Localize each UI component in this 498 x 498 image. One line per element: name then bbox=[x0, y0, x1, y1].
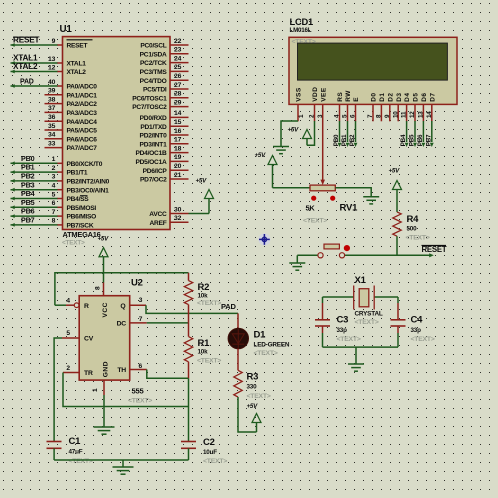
svg-text:15: 15 bbox=[174, 119, 182, 126]
svg-text:D1: D1 bbox=[379, 92, 386, 101]
svg-text:<TEXT>: <TEXT> bbox=[203, 458, 227, 465]
wire crystal bottom bbox=[323, 346, 399, 348]
origin marker bbox=[258, 233, 270, 245]
svg-text:R4: R4 bbox=[407, 214, 420, 225]
svg-text:3: 3 bbox=[52, 174, 56, 181]
svg-text:VSS: VSS bbox=[296, 87, 303, 102]
svg-text:PD6/ICP: PD6/ICP bbox=[143, 168, 168, 175]
svg-text:33p: 33p bbox=[411, 327, 422, 334]
power +5V (R4) bbox=[389, 167, 402, 212]
terminal PB0 (U1 left) bbox=[11, 154, 58, 165]
power +5V (R3) bbox=[238, 397, 261, 432]
crystal X1 bbox=[323, 275, 399, 326]
terminal RESET (U1 left) bbox=[11, 36, 58, 47]
svg-text:500: 500 bbox=[407, 226, 418, 233]
svg-text:D2: D2 bbox=[387, 92, 394, 101]
svg-text:PA7/ADC7: PA7/ADC7 bbox=[67, 145, 98, 152]
svg-text:21: 21 bbox=[174, 172, 182, 179]
wire TR bbox=[63, 373, 189, 407]
svg-text:R: R bbox=[84, 303, 89, 310]
svg-text:PC6/TOSC1: PC6/TOSC1 bbox=[132, 95, 167, 102]
LED D1 LED-GREEN bbox=[228, 313, 290, 370]
svg-text:+5V: +5V bbox=[247, 403, 259, 410]
svg-text:17: 17 bbox=[174, 137, 182, 144]
svg-text:40: 40 bbox=[48, 79, 56, 86]
svg-text:PC7/TOSC2: PC7/TOSC2 bbox=[132, 104, 167, 111]
svg-text:4: 4 bbox=[66, 298, 70, 305]
svg-text:47uF: 47uF bbox=[69, 449, 83, 456]
svg-text:PC4/TDO: PC4/TDO bbox=[140, 78, 167, 85]
svg-text:PB0: PB0 bbox=[333, 134, 340, 146]
svg-text:PB6: PB6 bbox=[417, 134, 424, 146]
svg-text:PB7/SCK: PB7/SCK bbox=[67, 223, 94, 230]
capacitor C3 33p bbox=[315, 297, 361, 347]
svg-text:VEE: VEE bbox=[320, 87, 327, 102]
svg-text:C2: C2 bbox=[203, 437, 215, 448]
svg-text:RW: RW bbox=[345, 90, 352, 102]
svg-text:2: 2 bbox=[66, 365, 70, 372]
svg-text:D1: D1 bbox=[254, 330, 267, 341]
svg-text:330: 330 bbox=[247, 384, 258, 391]
svg-text:PD5/OC1A: PD5/OC1A bbox=[136, 159, 167, 166]
svg-text:U1: U1 bbox=[60, 24, 73, 35]
svg-text:555: 555 bbox=[132, 387, 145, 396]
power +5V (555 VCC) bbox=[98, 236, 110, 283]
terminal PB4 (U1 left) bbox=[11, 189, 58, 200]
wire VEE to RV1 wiper bbox=[320, 121, 325, 185]
svg-text:LED-GREEN: LED-GREEN bbox=[254, 342, 290, 349]
svg-text:XTAL2: XTAL2 bbox=[13, 62, 38, 71]
terminal PB4 (LCD) bbox=[400, 121, 408, 147]
wire +5V rail to R2/reset bbox=[55, 273, 189, 305]
svg-text:35: 35 bbox=[48, 123, 56, 130]
svg-text:33: 33 bbox=[48, 140, 56, 147]
svg-text:D6: D6 bbox=[421, 92, 428, 101]
power +5V (LCD VDD) bbox=[288, 121, 315, 145]
svg-text:PB0: PB0 bbox=[21, 154, 35, 163]
svg-text:<TEXT>: <TEXT> bbox=[197, 300, 221, 307]
capacitor C1 47uF bbox=[47, 436, 93, 465]
svg-text:RS: RS bbox=[337, 92, 344, 102]
svg-text:19: 19 bbox=[174, 154, 182, 161]
svg-text:PC1/SDA: PC1/SDA bbox=[140, 51, 167, 58]
svg-text:10uF: 10uF bbox=[203, 449, 217, 456]
svg-text:PD2/INT0: PD2/INT0 bbox=[140, 133, 168, 140]
wire Q output / PAD bbox=[146, 305, 238, 313]
svg-text:PD7/OC2: PD7/OC2 bbox=[140, 177, 167, 184]
terminal PB7 (U1 left) bbox=[11, 216, 58, 227]
terminal PB6 (U1 left) bbox=[11, 207, 58, 218]
svg-text:+5V: +5V bbox=[98, 236, 110, 243]
svg-text:PA5/ADC5: PA5/ADC5 bbox=[67, 128, 98, 135]
svg-text:1: 1 bbox=[92, 388, 99, 392]
svg-text:DC: DC bbox=[117, 321, 127, 328]
ground (crystal) bbox=[348, 347, 364, 371]
svg-text:30: 30 bbox=[174, 206, 182, 213]
svg-text:7: 7 bbox=[52, 209, 56, 216]
svg-text:AREF: AREF bbox=[150, 220, 167, 227]
svg-text:22: 22 bbox=[174, 38, 182, 45]
svg-text:26: 26 bbox=[174, 73, 182, 80]
svg-text:PB5: PB5 bbox=[409, 134, 416, 146]
svg-text:9: 9 bbox=[52, 38, 56, 45]
svg-text:37: 37 bbox=[48, 105, 56, 112]
svg-text:LM016L: LM016L bbox=[290, 27, 312, 34]
svg-text:<TEXT>: <TEXT> bbox=[406, 235, 430, 242]
svg-text:VDD: VDD bbox=[312, 87, 319, 102]
svg-text:PB2/INT2/AIN0: PB2/INT2/AIN0 bbox=[67, 179, 110, 186]
capacitor C2 10uF bbox=[181, 437, 227, 465]
svg-text:GND: GND bbox=[103, 361, 110, 377]
wire R1/TH to C2 bbox=[188, 378, 190, 441]
svg-text:<TEXT>: <TEXT> bbox=[197, 358, 221, 365]
svg-text:10k: 10k bbox=[198, 348, 209, 355]
svg-text:E: E bbox=[353, 97, 360, 102]
svg-text:PB5: PB5 bbox=[21, 198, 35, 207]
timer U2 555 bbox=[62, 278, 152, 405]
svg-text:PB3: PB3 bbox=[21, 180, 35, 189]
svg-text:20: 20 bbox=[174, 163, 182, 170]
svg-text:24: 24 bbox=[174, 55, 182, 62]
svg-text:12: 12 bbox=[48, 64, 56, 71]
svg-text:28: 28 bbox=[174, 91, 182, 98]
svg-text:<TEXT>: <TEXT> bbox=[303, 218, 327, 225]
ground (LCD VSS) bbox=[273, 121, 298, 154]
svg-text:6: 6 bbox=[139, 363, 143, 370]
svg-text:PB7: PB7 bbox=[425, 134, 432, 146]
pushbutton (reset) bbox=[297, 244, 434, 258]
svg-text:D4: D4 bbox=[404, 92, 411, 101]
resistor R3 330 bbox=[234, 370, 271, 400]
svg-text:XTAL2: XTAL2 bbox=[67, 69, 87, 76]
net label RESET bbox=[422, 245, 447, 254]
svg-text:34: 34 bbox=[48, 132, 56, 139]
svg-text:PB7: PB7 bbox=[21, 216, 35, 225]
IC U1 ATMEGA16 bbox=[45, 24, 189, 247]
potentiometer RV1 5K bbox=[273, 185, 380, 224]
ground (reset button) bbox=[289, 255, 305, 270]
svg-text:PB5/MOSI: PB5/MOSI bbox=[67, 205, 97, 212]
svg-text:PB2: PB2 bbox=[21, 172, 35, 181]
svg-text:PB1: PB1 bbox=[21, 163, 35, 172]
svg-text:<TEXT>: <TEXT> bbox=[411, 336, 435, 343]
svg-text:TR: TR bbox=[84, 370, 93, 377]
svg-text:PB4: PB4 bbox=[400, 134, 407, 146]
svg-text:+5V: +5V bbox=[196, 177, 208, 184]
svg-text:PB2: PB2 bbox=[349, 134, 356, 146]
svg-text:27: 27 bbox=[174, 82, 182, 89]
svg-text:PC5/TDI: PC5/TDI bbox=[143, 87, 167, 94]
power +5V (AVCC) bbox=[189, 177, 214, 213]
svg-text:VCC: VCC bbox=[102, 302, 109, 317]
svg-text:36: 36 bbox=[48, 114, 56, 121]
svg-text:PA0/ADC0: PA0/ADC0 bbox=[67, 84, 98, 91]
svg-text:10k: 10k bbox=[198, 293, 209, 300]
svg-text:D3: D3 bbox=[396, 92, 403, 101]
terminal PB3 (U1 left) bbox=[11, 180, 58, 191]
terminal PB5 (U1 left) bbox=[11, 198, 58, 209]
svg-text:5K: 5K bbox=[306, 204, 316, 213]
svg-text:2: 2 bbox=[52, 165, 56, 172]
svg-text:6: 6 bbox=[52, 200, 56, 207]
resistor R2 10k bbox=[184, 273, 221, 323]
svg-text:PC2/TCK: PC2/TCK bbox=[140, 60, 167, 67]
svg-text:C4: C4 bbox=[411, 315, 424, 326]
svg-text:+5V: +5V bbox=[389, 167, 401, 174]
svg-text:AVCC: AVCC bbox=[149, 211, 167, 218]
svg-text:<TEXT>: <TEXT> bbox=[128, 398, 152, 405]
svg-text:33p: 33p bbox=[337, 327, 348, 334]
svg-text:+5V: +5V bbox=[255, 152, 267, 159]
wire DC to R2/R1 junction bbox=[147, 322, 189, 324]
svg-text:5: 5 bbox=[52, 191, 56, 198]
wire C1-C2 bottom bbox=[54, 459, 188, 461]
terminal PB2 (LCD) bbox=[349, 121, 357, 147]
svg-text:RESET: RESET bbox=[422, 245, 447, 254]
wire CV to C1 bbox=[54, 338, 62, 441]
svg-text:PD4/OC1B: PD4/OC1B bbox=[136, 150, 167, 157]
svg-text:16: 16 bbox=[174, 128, 182, 135]
svg-text:PA3/ADC3: PA3/ADC3 bbox=[67, 110, 98, 117]
capacitor C4 33p bbox=[391, 297, 435, 347]
svg-text:R3: R3 bbox=[247, 372, 259, 383]
wire TH bbox=[147, 370, 189, 379]
svg-text:ATMEGA16: ATMEGA16 bbox=[63, 230, 101, 239]
svg-text:R2: R2 bbox=[198, 282, 210, 293]
svg-text:PB4: PB4 bbox=[21, 189, 35, 198]
svg-text:PB4/SS: PB4/SS bbox=[67, 196, 90, 203]
svg-text:PA1/ADC1: PA1/ADC1 bbox=[67, 92, 98, 99]
svg-text:CRYSTAL: CRYSTAL bbox=[355, 311, 383, 318]
ground (C1/C2) bbox=[113, 460, 134, 474]
svg-text:D7: D7 bbox=[429, 92, 436, 101]
svg-text:18: 18 bbox=[174, 145, 182, 152]
LCD1 LM016L display bbox=[289, 17, 457, 121]
svg-text:PB1: PB1 bbox=[341, 134, 348, 146]
terminal PB1 (U1 left) bbox=[11, 163, 58, 174]
svg-text:39: 39 bbox=[48, 88, 56, 95]
svg-text:PA4/ADC4: PA4/ADC4 bbox=[67, 119, 98, 126]
svg-text:PAD: PAD bbox=[221, 302, 236, 311]
svg-text:4: 4 bbox=[52, 183, 56, 190]
svg-text:PC3/TMS: PC3/TMS bbox=[140, 69, 168, 76]
svg-text:<TEXT>: <TEXT> bbox=[69, 458, 93, 465]
svg-text:C3: C3 bbox=[337, 315, 349, 326]
svg-text:38: 38 bbox=[48, 96, 56, 103]
svg-text:PD1/TXD: PD1/TXD bbox=[140, 124, 167, 131]
svg-text:PB6: PB6 bbox=[21, 207, 35, 216]
svg-text:X1: X1 bbox=[355, 275, 367, 286]
svg-text:8: 8 bbox=[95, 286, 102, 290]
svg-text:PB6/MISO: PB6/MISO bbox=[67, 214, 97, 221]
terminal PB1 (LCD) bbox=[341, 121, 349, 147]
svg-text:XTAL1: XTAL1 bbox=[67, 61, 87, 68]
svg-text:3: 3 bbox=[139, 297, 143, 304]
svg-text:PAD: PAD bbox=[20, 79, 34, 86]
svg-text:8: 8 bbox=[52, 218, 56, 225]
svg-text:<TEXT>: <TEXT> bbox=[355, 319, 379, 326]
svg-text:PA2/ADC2: PA2/ADC2 bbox=[67, 101, 98, 108]
svg-text:C1: C1 bbox=[69, 436, 82, 447]
terminal PB0 (LCD) bbox=[333, 121, 341, 147]
svg-text:PD3/INT1: PD3/INT1 bbox=[140, 141, 168, 148]
svg-text:23: 23 bbox=[174, 47, 182, 54]
svg-text:LCD1: LCD1 bbox=[290, 17, 314, 27]
terminal PAD (U1 left) bbox=[11, 79, 58, 88]
svg-text:29: 29 bbox=[174, 99, 182, 106]
svg-text:Q: Q bbox=[120, 303, 125, 310]
svg-text:32: 32 bbox=[174, 215, 182, 222]
svg-text:D0: D0 bbox=[371, 92, 378, 101]
resistor R1 10k bbox=[184, 323, 221, 378]
terminal XTAL2 (U1 left) bbox=[11, 62, 58, 73]
svg-text:<TEXT>: <TEXT> bbox=[254, 350, 278, 357]
svg-text:+5V: +5V bbox=[288, 126, 300, 133]
terminal XTAL1 (U1 left) bbox=[11, 54, 58, 65]
svg-text:CV: CV bbox=[84, 336, 94, 343]
svg-text:25: 25 bbox=[174, 64, 182, 71]
svg-text:PD0/RXD: PD0/RXD bbox=[140, 115, 167, 122]
svg-text:<TEXT>: <TEXT> bbox=[337, 336, 361, 343]
svg-text:RESET: RESET bbox=[67, 43, 88, 50]
svg-text:PB0/XCK/T0: PB0/XCK/T0 bbox=[67, 161, 103, 168]
ground (555 GND) bbox=[94, 395, 115, 434]
svg-text:D5: D5 bbox=[413, 92, 420, 101]
svg-text:5: 5 bbox=[66, 330, 70, 337]
terminal PB6 (LCD) bbox=[417, 121, 425, 147]
power +5V (RV1) bbox=[255, 152, 278, 188]
terminal PB7 (LCD) bbox=[425, 121, 433, 147]
terminal PB2 (U1 left) bbox=[11, 172, 58, 183]
svg-text:<TEXT>: <TEXT> bbox=[247, 393, 271, 400]
resistor R4 500 bbox=[393, 212, 430, 255]
svg-text:14: 14 bbox=[174, 110, 182, 117]
svg-text:PB3/OC0/AIN1: PB3/OC0/AIN1 bbox=[67, 187, 110, 194]
svg-text:U2: U2 bbox=[131, 278, 143, 289]
svg-text:<TEXT>: <TEXT> bbox=[62, 240, 85, 247]
svg-text:13: 13 bbox=[48, 56, 56, 63]
svg-text:RV1: RV1 bbox=[340, 203, 359, 214]
svg-text:7: 7 bbox=[139, 316, 143, 323]
svg-text:PC0/SCL: PC0/SCL bbox=[140, 43, 166, 50]
terminal PB5 (LCD) bbox=[409, 121, 417, 147]
svg-text:PA6/ADC6: PA6/ADC6 bbox=[67, 136, 98, 143]
svg-text:TH: TH bbox=[117, 367, 126, 374]
svg-text:1: 1 bbox=[52, 156, 56, 163]
svg-text:PB1/T1: PB1/T1 bbox=[67, 170, 88, 177]
